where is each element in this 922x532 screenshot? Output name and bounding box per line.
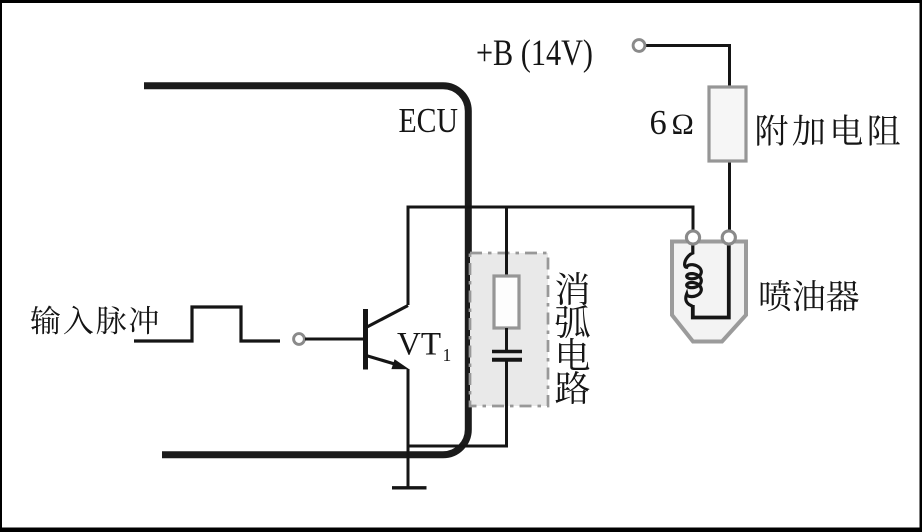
- injector internal wire: [693, 243, 729, 318]
- fuel injector body: [672, 242, 746, 342]
- label 喷油器 (fuel injector): [761, 280, 791, 311]
- transistor VT1 base bar: [363, 309, 368, 370]
- injector coil (inductor): [685, 243, 702, 307]
- ECU boundary (thick outline): [144, 86, 468, 455]
- svg-text:+B (14V): +B (14V): [476, 33, 593, 74]
- label 消弧电路 (arc suppression circuit), vertical: [556, 272, 588, 305]
- transistor VT1 emitter stroke with arrow: [366, 356, 398, 366]
- wire: input terminal to base: [305, 338, 364, 341]
- arc-suppression (snubber) dashed box: [470, 253, 548, 406]
- capacitor C top plate: [492, 350, 522, 353]
- resistor 6-ohm (additional resistor): [709, 87, 746, 161]
- svg-text:6: 6: [650, 104, 667, 142]
- wire: +B supply to resistor: [644, 46, 730, 89]
- capacitor C bottom plate: [492, 358, 522, 362]
- wire: capacitor down, back to emitter node: [408, 361, 507, 446]
- terminal +B: [633, 40, 645, 52]
- svg-text:Ω: Ω: [672, 108, 694, 141]
- svg-text:VT: VT: [397, 327, 441, 363]
- svg-text:1: 1: [443, 345, 452, 365]
- label 附加电阻 (additional resistor): [757, 115, 788, 146]
- injector terminal right: [722, 231, 735, 244]
- label 输入脉冲 (input pulse): [31, 306, 60, 335]
- transistor VT1 collector stroke: [366, 306, 408, 328]
- ground: [392, 486, 427, 489]
- input terminal: [294, 334, 305, 345]
- input pulse waveform: [134, 307, 280, 341]
- resistor (snubber R): [494, 276, 519, 328]
- wire: collector node to injector left terminal: [408, 207, 693, 305]
- wire: snubber branch upper: [505, 207, 508, 277]
- wire: snubber R to capacitor: [505, 328, 508, 350]
- injector terminal left: [686, 231, 699, 244]
- wire: resistor to injector right terminal: [728, 161, 731, 232]
- wire: emitter to ground: [407, 369, 410, 487]
- svg-text:ECU: ECU: [399, 101, 459, 140]
